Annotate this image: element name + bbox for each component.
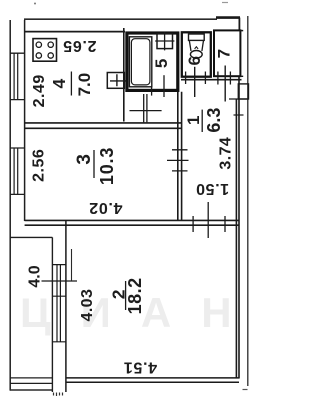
- room7 bottom extension to section line: [240, 75, 243, 77]
- svg-text:2.56: 2.56: [31, 149, 48, 182]
- bathtub: [129, 37, 151, 87]
- balcony window caps: [52, 265, 66, 342]
- top specks: [34, 3, 36, 5]
- kitchen/room3 divider wall: [25, 123, 182, 128]
- witness line 1.50: [207, 202, 209, 238]
- toilet room (6) walls: [182, 32, 211, 76]
- hallway / room2 right wall: [236, 77, 239, 379]
- svg-text:6: 6: [185, 56, 204, 65]
- svg-text:4.51: 4.51: [123, 358, 157, 375]
- ticks on sanitary bottom walls: [186, 72, 231, 85]
- svg-text:18.2: 18.2: [125, 277, 145, 314]
- hatch marks below wall: [54, 393, 63, 397]
- svg-text:2.49: 2.49: [31, 74, 48, 107]
- balcony window glazing: [57, 265, 60, 342]
- bathroom door tick: [163, 75, 165, 97]
- svg-text:2.65: 2.65: [63, 37, 97, 54]
- room3 window caps: [10, 148, 24, 194]
- bathroom bottom tick: [151, 87, 153, 96]
- svg-text:3.74: 3.74: [217, 137, 234, 170]
- kitchen top wall: [25, 31, 125, 33]
- shaft box top right: [238, 84, 248, 99]
- kitchen window caps: [10, 53, 24, 99]
- kitchen right wall: [123, 28, 125, 122]
- room2 bottom wall: [66, 378, 239, 382]
- svg-text:7: 7: [215, 49, 234, 58]
- svg-text:1: 1: [184, 116, 203, 125]
- stove: [33, 39, 57, 62]
- room2 left wall inner face: [65, 220, 67, 392]
- svg-text:1.50: 1.50: [196, 180, 230, 197]
- tick on right wall: [234, 114, 244, 116]
- bathroom door leaf: [144, 94, 147, 122]
- room (7) walls: [214, 30, 240, 76]
- right section line: [247, 16, 249, 386]
- svg-text:5: 5: [152, 59, 171, 68]
- svg-text:4.02: 4.02: [89, 199, 123, 216]
- top-right corner drop: [238, 18, 240, 31]
- svg-text:3: 3: [74, 154, 95, 165]
- balcony bottom double lines: [10, 378, 52, 384]
- kitchen sink: [107, 73, 127, 89]
- svg-text:6.3: 6.3: [204, 108, 224, 133]
- bathroom (5) walls: [127, 33, 178, 90]
- lower wall line below rooms 6,7: [181, 79, 242, 81]
- svg-text:7.0: 7.0: [75, 73, 94, 97]
- door leaf cross tick: [130, 110, 162, 112]
- balcony top edge: [10, 236, 52, 238]
- balcony wall outer face: [51, 237, 53, 392]
- room3 bottom / hallway bottom wall: [25, 220, 239, 225]
- svg-text:10.3: 10.3: [97, 147, 117, 185]
- room7 door tick: [224, 66, 226, 102]
- bathroom sink: [155, 32, 174, 51]
- kitchen window glazing: [14, 53, 18, 99]
- room3 window glazing: [14, 148, 18, 194]
- bottom line under balcony: [10, 389, 53, 391]
- left section line / outer wall face: [9, 20, 11, 391]
- room3 door ticks: [167, 150, 189, 171]
- top boundary right step: [216, 16, 240, 19]
- left exterior wall inner face: [24, 20, 26, 221]
- toilet fixture: [189, 34, 205, 58]
- svg-text:4.03: 4.03: [79, 289, 96, 322]
- hallway left wall (room3 right wall): [178, 92, 182, 221]
- 4.03 witness line: [71, 249, 73, 281]
- shaft bottom line extension: [229, 98, 249, 100]
- svg-text:4: 4: [49, 78, 69, 88]
- room7 top extension: [240, 30, 243, 32]
- svg-text:4.0: 4.0: [27, 265, 44, 287]
- toilet door tick: [194, 67, 196, 97]
- door ticks hallway-room2: [193, 216, 225, 232]
- top boundary thin line: [24, 18, 217, 20]
- 4.0 leader line: [42, 280, 78, 282]
